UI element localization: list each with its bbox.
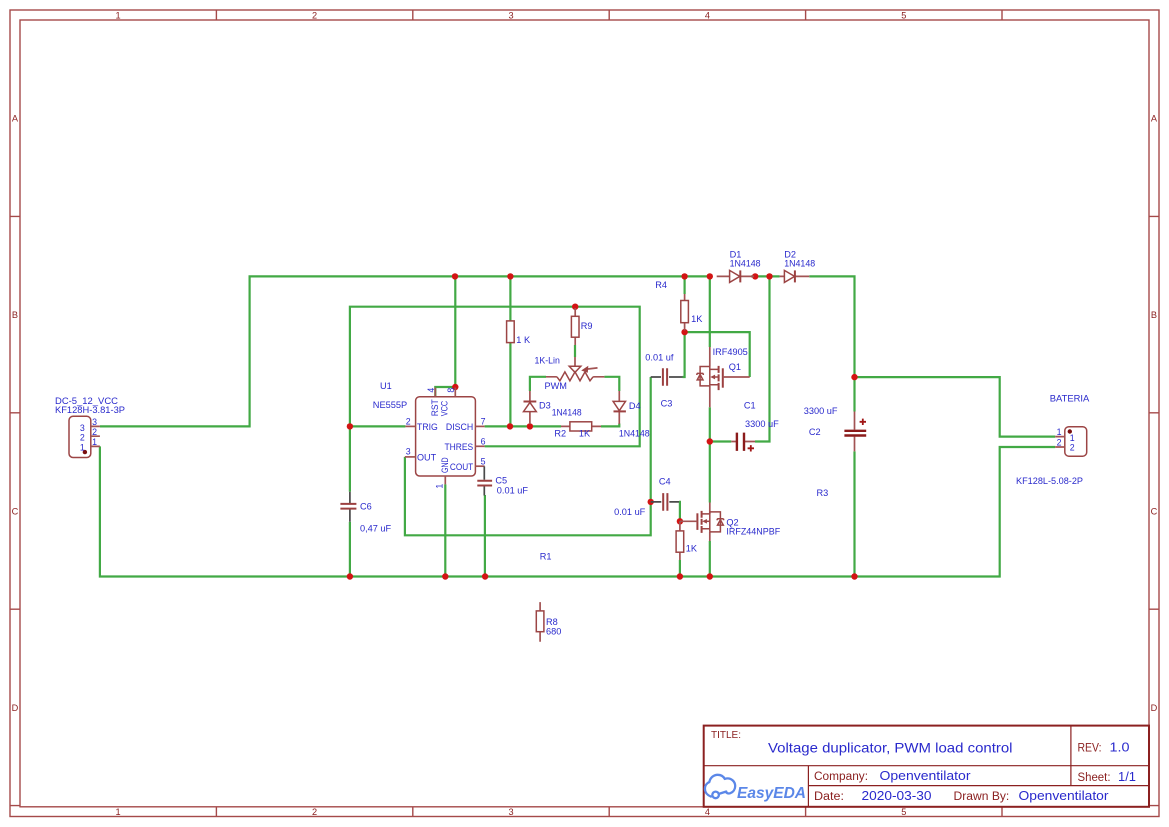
junction VCC/R4 [681, 273, 687, 279]
svg-text:R1: R1 [540, 552, 552, 562]
pin 6 THRES [475, 445, 484, 447]
svg-text:1: 1 [434, 484, 444, 489]
junction TRIG node [347, 423, 353, 429]
wire Q2 gate pulldown resistor bottom to GND rail [679, 560, 681, 577]
wire C4 right to Q2 gate node [678, 502, 681, 521]
svg-text:DISCH: DISCH [446, 422, 473, 432]
svg-text:1K: 1K [686, 543, 698, 553]
wire C1 node to Q2 drain [709, 442, 711, 503]
svg-text:1: 1 [80, 442, 85, 452]
resistor 1 K (VCC to DISCH) [507, 321, 531, 345]
diode D4 1N4148 [613, 391, 650, 439]
svg-text:2: 2 [312, 10, 317, 20]
junction C4 left on OUT branch [648, 499, 654, 505]
svg-text:A: A [1151, 114, 1158, 124]
svg-text:2: 2 [406, 416, 411, 426]
potentiometer PWM 1K-Lin [535, 356, 605, 392]
svg-text:1N4148: 1N4148 [619, 429, 650, 439]
svg-text:1K-Lin: 1K-Lin [535, 356, 560, 366]
transistor Q1 IRF4905 [697, 347, 750, 407]
svg-text:1N4148: 1N4148 [784, 259, 815, 269]
resistor R4 1K [655, 280, 703, 330]
wire 555 GND pin to GND rail [444, 484, 446, 576]
svg-text:R2: R2 [554, 428, 566, 438]
svg-text:A: A [12, 114, 19, 124]
wire VCC to resistor 1 K top [509, 276, 511, 321]
pin 4 RST (top) [434, 388, 436, 397]
svg-text:B: B [1151, 310, 1157, 320]
pin 8 VCC (top) [454, 388, 456, 397]
diode D2 1N4148 [780, 250, 816, 283]
pin 3 OUT [405, 456, 416, 458]
svg-text:THRES: THRES [445, 442, 474, 452]
svg-text:EasyEDA: EasyEDA [737, 785, 806, 802]
wire VCC net: DC pin3 to top rail [100, 276, 710, 426]
wire VCC to Q1 source [709, 276, 711, 347]
svg-text:COUT: COUT [450, 462, 474, 472]
pin 1 GND (bottom) [444, 476, 446, 484]
svg-text:2: 2 [312, 807, 317, 817]
U1 pin names [417, 399, 474, 473]
junction GND rail / C2 bottom [851, 573, 857, 579]
svg-text:3300 uF: 3300 uF [804, 406, 838, 416]
svg-text:0.01 uF: 0.01 uF [497, 486, 529, 496]
transistor Q2 IRFZ44NPBF [680, 503, 781, 542]
svg-text:1: 1 [115, 10, 120, 20]
junction R4 bottom / gate Q1 / C3 [681, 329, 687, 335]
pin 5 COUT [475, 465, 484, 467]
svg-text:5: 5 [901, 10, 906, 20]
svg-text:6: 6 [481, 436, 486, 446]
capacitor C1 3300 uF [731, 401, 779, 452]
svg-text:C3: C3 [661, 399, 673, 409]
svg-text:KF128H-3.81-3P: KF128H-3.81-3P [55, 405, 125, 415]
capacitor C6 0,47 uF [340, 492, 391, 534]
svg-text:1K: 1K [691, 314, 703, 324]
wire C6 bottom to GND rail [349, 522, 351, 577]
svg-text:BATERIA: BATERIA [1050, 393, 1090, 403]
wire GND bottom rail [100, 446, 1055, 576]
svg-text:1N4148: 1N4148 [552, 407, 582, 417]
svg-text:2: 2 [1057, 437, 1062, 447]
svg-text:1: 1 [92, 437, 97, 447]
svg-text:RST: RST [430, 399, 440, 416]
svg-text:0.01 uf: 0.01 uf [645, 353, 674, 363]
svg-text:Sheet:: Sheet: [1078, 772, 1111, 784]
svg-text:C4: C4 [659, 477, 671, 487]
svg-text:2: 2 [1070, 442, 1075, 452]
U1 pin numbers [406, 388, 486, 489]
wire pot left to D3 top [530, 377, 546, 391]
svg-text:R3: R3 [817, 488, 829, 498]
resistor R9 [571, 308, 592, 345]
svg-text:IRF4905: IRF4905 [713, 347, 748, 357]
wire OUT to C3/C4 branch (R1 net) [405, 377, 651, 535]
connector P2 BATERIA KF128L-5.08-2P [1016, 393, 1090, 486]
pin 2 TRIG [405, 425, 415, 427]
svg-text:C: C [12, 506, 19, 516]
junction C2 top / BATERIA feed [851, 374, 857, 380]
wire VCC to 555 VCC/RST pins [435, 276, 455, 396]
junction VCC/555 pin8 riser [452, 273, 458, 279]
svg-text:C2: C2 [809, 427, 821, 437]
svg-text:1/1: 1/1 [1118, 769, 1136, 784]
svg-text:2: 2 [80, 433, 85, 443]
svg-text:GND: GND [440, 457, 450, 473]
svg-text:C1: C1 [744, 401, 756, 411]
svg-text:R9: R9 [581, 321, 593, 331]
wire C1 left lead [710, 440, 732, 442]
svg-text:VCC: VCC [440, 401, 450, 417]
EasyEDA logo [705, 775, 735, 798]
svg-text:TRIG: TRIG [417, 422, 438, 432]
svg-text:C6: C6 [360, 502, 372, 512]
svg-text:D: D [1151, 703, 1158, 713]
svg-text:IRFZ44NPBF: IRFZ44NPBF [726, 527, 780, 537]
svg-text:Company:: Company: [814, 771, 868, 783]
junction C1 / Q1 drain / Q2 drain [707, 438, 713, 444]
svg-text:1N4148: 1N4148 [730, 259, 761, 269]
svg-text:Q1: Q1 [729, 362, 741, 372]
junction GND rail / C5 [482, 573, 488, 579]
junction VCC/Q1 source [707, 273, 713, 279]
junction VCC/1 K resistor [507, 273, 513, 279]
svg-text:3: 3 [508, 807, 513, 817]
svg-text:Date:: Date: [814, 791, 844, 803]
wire node between D1 and D2 [751, 275, 780, 277]
svg-text:Openventilator: Openventilator [1019, 788, 1110, 803]
svg-text:3: 3 [92, 417, 97, 427]
svg-text:0,47 uF: 0,47 uF [360, 523, 392, 533]
svg-text:D4: D4 [629, 401, 641, 411]
wire R2 right to D4 bottom [601, 424, 619, 427]
diode D3 1N4148 [524, 391, 582, 424]
junction GND rail / C6 [347, 573, 353, 579]
svg-text:Openventilator: Openventilator [880, 768, 972, 783]
junction GND rail / 555 GND [442, 573, 448, 579]
junction DISCH / 1 K bottom [507, 423, 513, 429]
capacitor C4 0.01 uF [614, 477, 679, 517]
svg-text:3: 3 [80, 423, 85, 433]
svg-text:1 K: 1 K [516, 335, 531, 345]
wire C1 right to D1-D2 node [755, 276, 770, 441]
wire C5 bottom to GND rail [484, 495, 486, 577]
svg-text:REV:: REV: [1078, 743, 1102, 755]
svg-text:U1: U1 [380, 381, 392, 391]
junction DISCH / D3 / R2 [527, 423, 533, 429]
wire C2 bottom to GND rail [853, 451, 855, 576]
svg-text:7: 7 [481, 417, 486, 427]
wire C2 to BATERIA pin 1 [855, 377, 1056, 437]
svg-text:0.01 uF: 0.01 uF [614, 507, 646, 517]
svg-text:D3: D3 [539, 401, 551, 411]
svg-text:1: 1 [1057, 427, 1062, 437]
svg-text:5: 5 [481, 456, 486, 466]
svg-text:Voltage duplicator, PWM load c: Voltage duplicator, PWM load control [768, 739, 1013, 755]
svg-text:3: 3 [508, 10, 513, 20]
svg-text:D: D [12, 703, 19, 713]
svg-text:680: 680 [546, 627, 561, 637]
svg-text:R4: R4 [655, 280, 667, 290]
svg-text:1: 1 [115, 807, 120, 817]
wire TRIG-THRES timing loop [350, 307, 640, 447]
resistor 1K (Q2 gate pulldown) [676, 521, 698, 560]
op-amp/timer U1 NE555P [405, 388, 485, 485]
pin numbers of P2 [1057, 427, 1075, 452]
junction GND rail / Q2 source [707, 573, 713, 579]
capacitor C3 0.01 uf [645, 353, 682, 409]
wire R9 wiper gap [574, 345, 576, 357]
svg-text:2: 2 [92, 427, 97, 437]
resistor R2 1K [554, 422, 601, 439]
wire VCC to R4 top [683, 276, 685, 294]
resistor R8 680 (floating) [536, 602, 561, 642]
svg-text:TITLE:: TITLE: [711, 730, 741, 741]
svg-text:C: C [1151, 506, 1158, 516]
wire R4 bottom node to C3 right [683, 332, 685, 377]
junction GND rail / pulldown [677, 573, 683, 579]
svg-text:2020-03-30: 2020-03-30 [862, 788, 932, 803]
connector P1 DC-5_12_VCC KF128H-3.81-3P [55, 396, 125, 457]
wire TRIG node to C6 top [349, 426, 351, 491]
junction timing wire / R9 top [572, 304, 578, 310]
capacitor C2 3300 uF [804, 406, 866, 452]
svg-text:KF128L-5.08-2P: KF128L-5.08-2P [1016, 476, 1083, 486]
pin numbers of P1 [80, 417, 97, 452]
svg-text:5: 5 [901, 807, 906, 817]
wire DISCH node to D3 bottom [529, 424, 531, 427]
wire Q1 drain to C1 node [709, 407, 711, 441]
junction D1-D2 node to C1 riser [766, 273, 772, 279]
junction Q2 gate / pulldown [677, 518, 683, 524]
svg-text:OUT: OUT [417, 452, 436, 462]
junction RST-VCC link [452, 384, 458, 390]
wire resistor 1 K bottom to DISCH net [509, 343, 511, 427]
wire pot right to D4 top [604, 377, 619, 391]
svg-text:Drawn By:: Drawn By: [954, 791, 1010, 803]
svg-text:B: B [12, 310, 18, 320]
diode D1 1N4148 [717, 250, 761, 283]
capacitor C5 0.01 uF [477, 466, 528, 495]
svg-text:3: 3 [406, 447, 411, 457]
svg-text:4: 4 [426, 388, 436, 393]
TITLE BLOCK [704, 726, 1149, 807]
svg-text:8: 8 [446, 388, 456, 393]
svg-text:1K: 1K [579, 428, 591, 438]
svg-text:PWM: PWM [545, 381, 567, 391]
svg-text:C5: C5 [495, 476, 507, 486]
wire Q2 source to GND rail [709, 541, 711, 577]
junction D1 cathode node [752, 273, 758, 279]
junction dots [347, 273, 858, 580]
wire D2 cathode to C2 top [809, 276, 854, 411]
wire R4 node to Q1 gate [685, 332, 750, 377]
wire DISCH net [485, 425, 561, 427]
svg-text:4: 4 [705, 807, 710, 817]
pin 7 DISCH [475, 425, 484, 427]
svg-text:4: 4 [705, 10, 710, 20]
svg-text:NE555P: NE555P [373, 400, 407, 410]
svg-text:1.0: 1.0 [1110, 740, 1130, 755]
svg-text:3300 uF: 3300 uF [745, 419, 779, 429]
